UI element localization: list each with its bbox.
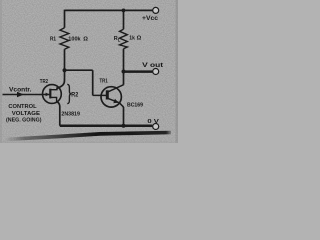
- wire: R1 bottom vertical to node A: [64, 49, 66, 70]
- wire: TR2 source down to 0V rail: [57, 102, 60, 126]
- svg-text:BC169: BC169: [127, 103, 143, 109]
- labels: [6, 15, 163, 125]
- wire: base wire from node A to TR1: [65, 69, 93, 71]
- wire: node A down, curving into TR2 drain: [57, 70, 65, 88]
- svg-text:Ω: Ω: [137, 36, 142, 42]
- edge vignette: [0, 0, 2, 143]
- junction dot top rail / RL: [122, 9, 126, 13]
- TR1 base bar: [106, 90, 109, 99]
- svg-text:(NEG. GOING): (NEG. GOING): [6, 118, 42, 124]
- svg-text:R1: R1: [50, 36, 56, 42]
- svg-text:Ω: Ω: [83, 37, 88, 43]
- wire: R1 top vertical: [64, 10, 66, 28]
- svg-text:+Vcc: +Vcc: [142, 15, 159, 22]
- svg-text:CONTROL: CONTROL: [8, 104, 37, 110]
- jfet TR2 circle (2N3819): [43, 85, 62, 104]
- svg-text:TR2: TR2: [40, 79, 48, 85]
- svg-text:1k: 1k: [129, 36, 135, 42]
- svg-text:0 V: 0 V: [147, 119, 159, 125]
- TR1 emitter arrowhead: [113, 99, 118, 103]
- terminal Vout: [153, 69, 159, 75]
- wire: into TR1 base: [93, 94, 107, 96]
- TR2 gate arrowhead at channel: [46, 93, 50, 97]
- wire: emitter drop to 0V rail: [123, 107, 125, 126]
- wire: RL top vertical: [123, 10, 125, 29]
- terminal 0V: [153, 124, 159, 130]
- resistor R1 (100k) zigzag: [60, 28, 69, 49]
- TR1 emitter diagonal: [108, 98, 124, 107]
- svg-text:R2: R2: [71, 92, 79, 98]
- TR2 drain stub: [50, 87, 57, 90]
- Vcontr arrowhead on gate wire: [17, 92, 24, 98]
- svg-text:V out: V out: [142, 62, 163, 69]
- svg-text:VOLTAGE: VOLTAGE: [12, 111, 40, 117]
- svg-text:2N3819: 2N3819: [61, 111, 80, 117]
- wire: Vout lead (thick): [124, 70, 153, 73]
- transistor TR1 circle (BC169): [101, 87, 121, 107]
- wire: 0V rail (thick): [60, 125, 153, 128]
- wire: base drop vertical: [92, 70, 94, 95]
- terminal +Vcc: [153, 7, 159, 13]
- wire: top +Vcc rail: [65, 9, 153, 11]
- svg-text:100k: 100k: [68, 37, 81, 43]
- junction dot emitter / 0V rail: [122, 124, 126, 128]
- svg-text:TR1: TR1: [100, 79, 109, 85]
- brace for R2 beside TR2: [67, 84, 70, 104]
- node Vout junction dot: [122, 70, 126, 74]
- svg-text:L: L: [118, 38, 121, 43]
- resistor RL (1k) zigzag: [120, 29, 128, 49]
- wire: RL bottom vertical to Vout node and TR1 collector: [123, 49, 125, 85]
- TR2 channel bar: [49, 89, 51, 99]
- node A junction dot (R1 / TR2 / base wire): [63, 68, 67, 72]
- TR2 gate wire from Vcontr: [3, 94, 50, 96]
- TR1 collector diagonal: [108, 85, 124, 92]
- bottom scan rule band: [5, 131, 171, 142]
- TR2 source stub: [50, 97, 56, 101]
- svg-text:Vcontr.: Vcontr.: [9, 87, 32, 94]
- paper background: [0, 0, 178, 143]
